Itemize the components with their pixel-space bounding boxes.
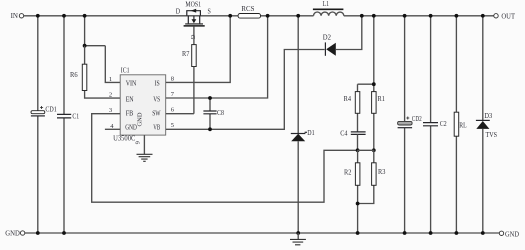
wire MOS gate to R7: [193, 27, 195, 45]
node R2 R3 bottom: [356, 202, 360, 206]
node IS rail: [228, 14, 232, 18]
svg-text:C2: C2: [440, 119, 447, 128]
node CD1 gnd: [36, 231, 40, 235]
wire CD2 branch: [404, 16, 406, 233]
resistor R1: [372, 16, 386, 151]
svg-text:GND: GND: [125, 122, 137, 131]
svg-text:D3: D3: [484, 111, 492, 120]
node RL rail: [455, 14, 459, 18]
resistor RCS: [238, 4, 260, 18]
wire R4 top link: [358, 83, 374, 85]
svg-text:S: S: [208, 6, 211, 15]
node FB junction left: [356, 148, 360, 152]
wire VB pin5 to D2: [166, 50, 325, 130]
svg-text:VB: VB: [153, 122, 160, 131]
ground symbol bottom: [290, 233, 306, 245]
node C2 rail: [429, 14, 433, 18]
node D1 gnd: [296, 231, 300, 235]
node CD2 rail: [403, 14, 407, 18]
svg-text:IN: IN: [11, 11, 19, 20]
resistor R6: [70, 46, 120, 98]
wire VS pin7 to rail: [166, 16, 268, 98]
node C2 gnd: [429, 231, 433, 235]
terminal GND left: [5, 229, 25, 238]
wire divider link: [358, 149, 374, 151]
node C1 gnd: [62, 231, 66, 235]
IC pin numbers left: [109, 76, 114, 130]
inductor L1: [313, 0, 344, 16]
svg-text:R4: R4: [344, 94, 352, 103]
svg-text:RL: RL: [459, 120, 467, 129]
svg-text:SW: SW: [152, 108, 160, 117]
svg-text:TVS: TVS: [486, 130, 498, 139]
IC pin names left: [125, 79, 137, 132]
diode D3 TVS: [476, 16, 497, 233]
diode D2: [323, 16, 362, 56]
node R6 rail: [83, 14, 87, 18]
label pin9 rotated: [135, 141, 142, 144]
IC pin names right: [152, 79, 160, 132]
node R6 top: [83, 44, 87, 48]
svg-text:R3: R3: [378, 167, 386, 176]
terminal IN: [11, 11, 24, 20]
node C1 rail: [62, 14, 66, 18]
node D3 rail: [481, 14, 485, 18]
node R1 rail: [372, 14, 376, 18]
wire FB feedback path: [92, 114, 358, 203]
svg-text:8: 8: [171, 75, 174, 82]
node R4 link: [372, 82, 376, 86]
IC ground: [137, 135, 153, 161]
capacitor CD1: [31, 105, 57, 116]
node R2 gnd: [356, 231, 360, 235]
node D1 rail: [296, 14, 300, 18]
wire IS pin8 to rail: [166, 16, 231, 83]
svg-text:R6: R6: [70, 70, 78, 79]
transistor MOS1: [176, 0, 211, 26]
node D2 rail: [360, 14, 364, 18]
wire R7 to SW: [193, 67, 195, 114]
svg-text:D1: D1: [307, 128, 315, 137]
svg-text:C4: C4: [340, 128, 347, 137]
svg-text:R7: R7: [182, 49, 190, 58]
wire SW pin6: [166, 113, 194, 115]
IC rotated GND label: [137, 112, 144, 126]
IC U1 body: [113, 66, 166, 143]
svg-text:R2: R2: [344, 167, 352, 176]
terminal OUT: [494, 12, 516, 21]
node VS rail: [266, 14, 270, 18]
wire C1 branch: [63, 16, 65, 233]
svg-text:CD1: CD1: [45, 105, 57, 114]
IC pin numbers right: [171, 75, 175, 129]
svg-text:GND: GND: [505, 229, 519, 238]
svg-text:OUT: OUT: [501, 12, 515, 21]
resistor R3: [358, 150, 386, 203]
svg-text:GND: GND: [137, 112, 144, 126]
svg-text:G: G: [189, 35, 196, 40]
node CD1 rail: [36, 14, 40, 18]
svg-text:IC1: IC1: [121, 66, 130, 75]
svg-text:U3500C: U3500C: [113, 133, 135, 142]
wire C2 branch: [430, 16, 432, 233]
capacitor C4: [340, 128, 365, 150]
svg-text:VS: VS: [153, 94, 160, 103]
svg-text:VIN: VIN: [126, 79, 137, 88]
resistor R7: [182, 45, 196, 67]
capacitor C1: [57, 111, 79, 120]
svg-text:2: 2: [109, 92, 112, 99]
svg-text:C8: C8: [217, 108, 224, 117]
svg-text:CD2: CD2: [412, 114, 422, 123]
node RL gnd: [455, 231, 459, 235]
svg-text:C1: C1: [72, 111, 79, 120]
capacitor C2: [423, 119, 447, 128]
wire VIN branch: [85, 16, 121, 83]
capacitor CD2: [398, 114, 422, 128]
node C8 top: [208, 96, 212, 100]
svg-text:L1: L1: [323, 0, 330, 8]
diode D1: [291, 16, 315, 233]
svg-text:D2: D2: [323, 33, 332, 42]
resistor R2: [344, 150, 360, 233]
capacitor C8: [203, 98, 224, 129]
svg-text:5: 5: [171, 122, 174, 129]
svg-text:RCS: RCS: [241, 4, 254, 13]
svg-text:D: D: [176, 6, 180, 15]
resistor R4: [344, 84, 360, 132]
wire CD1 branch: [37, 16, 39, 233]
wire pin4 stub: [105, 128, 120, 130]
node D3 gnd: [481, 231, 485, 235]
svg-text:9: 9: [135, 141, 142, 144]
svg-text:IS: IS: [155, 79, 160, 88]
wire bottom GND rail: [25, 232, 499, 234]
node CD2 gnd: [403, 231, 407, 235]
label G: [189, 35, 196, 40]
node FB junction right: [372, 148, 376, 152]
wire top rail: [24, 15, 494, 17]
svg-text:EN: EN: [126, 94, 134, 103]
svg-text:GND: GND: [5, 229, 20, 238]
resistor RL: [454, 16, 467, 233]
svg-text:MOS1: MOS1: [185, 0, 201, 8]
svg-text:FB: FB: [126, 108, 134, 117]
node C8 bottom: [208, 127, 212, 131]
terminal GND right: [499, 229, 519, 238]
svg-text:R1: R1: [378, 94, 386, 103]
svg-text:1: 1: [109, 76, 112, 83]
